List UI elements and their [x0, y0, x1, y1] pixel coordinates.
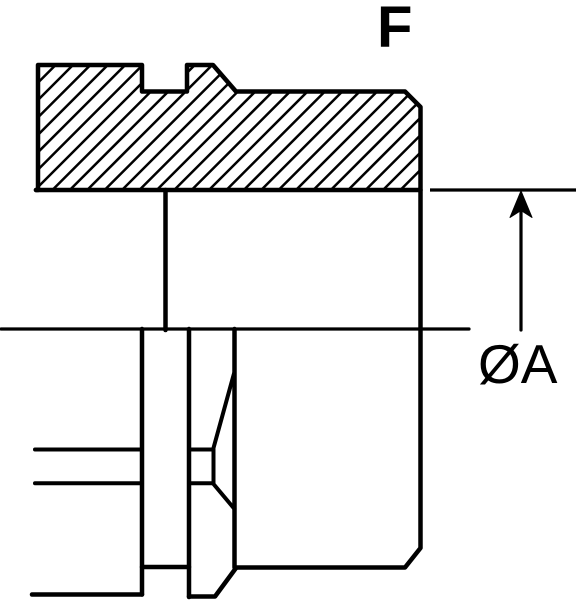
centerline	[1, 327, 469, 330]
cone seat	[189, 374, 235, 510]
bottom inner chamfer	[189, 568, 236, 597]
bottom step between walls	[142, 565, 189, 570]
hub outer wall (upper)	[163, 190, 168, 330]
bottom edge left tube	[32, 592, 142, 597]
dimension arrowhead	[510, 191, 532, 218]
lower bore wall	[232, 329, 237, 568]
flange section outline	[36, 65, 421, 568]
bore horizontals left	[35, 448, 142, 452]
lower tube wall mid	[187, 329, 192, 597]
dimension extension line	[430, 188, 576, 191]
flange bottom edge	[36, 188, 421, 193]
svg-text:ØA: ØA	[478, 333, 558, 395]
svg-text:F: F	[377, 0, 412, 60]
lower tube wall left	[140, 329, 145, 595]
hatching of flange section	[0, 58, 550, 196]
dimension arrow stem	[519, 205, 522, 330]
